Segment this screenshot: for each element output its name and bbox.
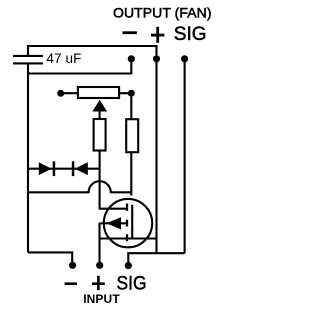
svg-text:INPUT: INPUT	[83, 292, 120, 306]
svg-text:OUTPUT (FAN): OUTPUT (FAN)	[113, 4, 212, 20]
svg-text:SIG: SIG	[117, 273, 147, 294]
svg-text:47 uF: 47 uF	[46, 51, 81, 66]
svg-text:SIG: SIG	[174, 24, 207, 45]
